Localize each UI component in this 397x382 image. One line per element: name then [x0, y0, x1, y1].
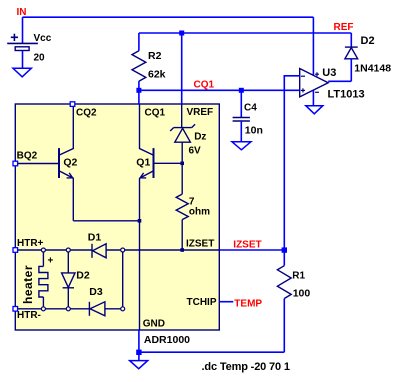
- svg-text:Dz: Dz: [194, 131, 206, 142]
- svg-text:.dc Temp -20 70 1: .dc Temp -20 70 1: [202, 361, 290, 373]
- svg-text:D2: D2: [76, 270, 90, 282]
- junction circles heater/diodes: [41, 248, 124, 311]
- svg-text:10n: 10n: [245, 125, 263, 137]
- svg-text:TCHIP: TCHIP: [187, 297, 217, 308]
- resistor 7ohm: [181, 163, 183, 194]
- svg-text:CQ2: CQ2: [76, 107, 97, 118]
- wire VREF drop: [181, 33, 183, 104]
- diode D2 1N4148: [350, 33, 352, 47]
- wire Vcc top lead: [22, 17, 24, 43]
- op-amp U3: [312, 17, 314, 75]
- svg-text:100: 100: [293, 287, 311, 299]
- svg-text:BQ2: BQ2: [17, 150, 38, 161]
- svg-text:+: +: [48, 256, 54, 267]
- pin square BQ2: [13, 161, 18, 166]
- wire emitters join: [73, 220, 139, 222]
- svg-text:HTR+: HTR+: [17, 238, 44, 249]
- svg-text:HTR-: HTR-: [17, 310, 41, 321]
- junction IZSET node: [282, 247, 287, 252]
- junction Q1 base / VREF: [180, 162, 184, 166]
- diode D3: [89, 302, 105, 316]
- junction emitters: [138, 219, 142, 223]
- ground below Vcc: [13, 68, 31, 77]
- wire HTR+/IZSET row internal: [15, 249, 92, 251]
- svg-text:LT1013: LT1013: [328, 89, 365, 101]
- diode D2 internal: [67, 250, 69, 273]
- svg-text:Vcc: Vcc: [34, 33, 52, 44]
- wire REF net row: [139, 32, 351, 34]
- svg-text:ADR1000: ADR1000: [144, 334, 190, 346]
- wire TCHIP stub: [219, 301, 233, 303]
- svg-text:Q1: Q1: [136, 156, 150, 168]
- wire GND lead below box: [138, 330, 140, 361]
- svg-text:IZSET: IZSET: [186, 239, 214, 250]
- svg-text:62k: 62k: [148, 69, 166, 81]
- svg-text:1N4148: 1N4148: [354, 63, 391, 75]
- svg-text:U3: U3: [322, 67, 336, 79]
- junction at REF/VREF: [179, 31, 184, 36]
- junction C4/CQ1: [239, 88, 244, 93]
- capacitor C4: [240, 90, 242, 117]
- ground below C4: [232, 142, 251, 150]
- wire D3 to bypass vertical: [105, 250, 123, 309]
- svg-text:D3: D3: [89, 286, 103, 298]
- zener Dz: [170, 104, 195, 163]
- ground main: [130, 361, 148, 369]
- wire Vcc bottom lead: [22, 51, 24, 69]
- junction 7ohm / IZSET row: [180, 248, 184, 252]
- pin square HTR+: [13, 248, 18, 253]
- svg-text:IZSET: IZSET: [233, 239, 261, 250]
- resistor R2: [138, 33, 140, 51]
- svg-text:D2: D2: [361, 35, 375, 47]
- junction R2/CQ1: [136, 88, 141, 93]
- pin square CQ2: [70, 102, 75, 107]
- wire GND internal: [139, 178, 141, 330]
- svg-text:CQ1: CQ1: [145, 107, 166, 118]
- resistor R1: [283, 250, 285, 266]
- wire HTR- row internal: [15, 308, 89, 310]
- wire IZSET row: [219, 249, 284, 251]
- heater element: [42, 250, 44, 266]
- svg-text:REF: REF: [334, 22, 354, 33]
- transistor Q1: [140, 104, 183, 178]
- svg-text:IN: IN: [17, 7, 27, 18]
- pin square HTR-: [13, 307, 18, 312]
- wire op-amp V- lead: [312, 91, 314, 106]
- svg-text:TEMP: TEMP: [234, 299, 262, 310]
- svg-text:D1: D1: [88, 232, 102, 244]
- wire IN net top: [23, 16, 314, 18]
- wire bottom rail: [139, 351, 284, 353]
- IC body ADR1000: [15, 104, 219, 330]
- wire op-amp output to D2: [328, 80, 351, 82]
- wire CQ1 pin drop: [138, 90, 140, 104]
- svg-text:VREF: VREF: [187, 107, 214, 118]
- wire inverting input feedback: [284, 76, 299, 250]
- svg-text:CQ1: CQ1: [194, 79, 215, 90]
- transistor Q2: [15, 104, 73, 221]
- ground below U3: [306, 106, 323, 114]
- svg-text:heater: heater: [21, 265, 35, 304]
- diode D1: [92, 244, 106, 258]
- svg-text:C4: C4: [244, 103, 257, 114]
- svg-text:20: 20: [34, 52, 46, 63]
- junction GND rail: [136, 350, 141, 355]
- voltage source Vcc: [7, 34, 38, 51]
- svg-text:R1: R1: [292, 270, 305, 281]
- svg-text:GND: GND: [143, 319, 165, 330]
- svg-text:ohm: ohm: [189, 206, 210, 217]
- svg-text:6V: 6V: [189, 146, 202, 157]
- wire CQ1 net row: [139, 89, 300, 91]
- svg-text:Q2: Q2: [63, 156, 77, 168]
- svg-text:R2: R2: [148, 50, 162, 62]
